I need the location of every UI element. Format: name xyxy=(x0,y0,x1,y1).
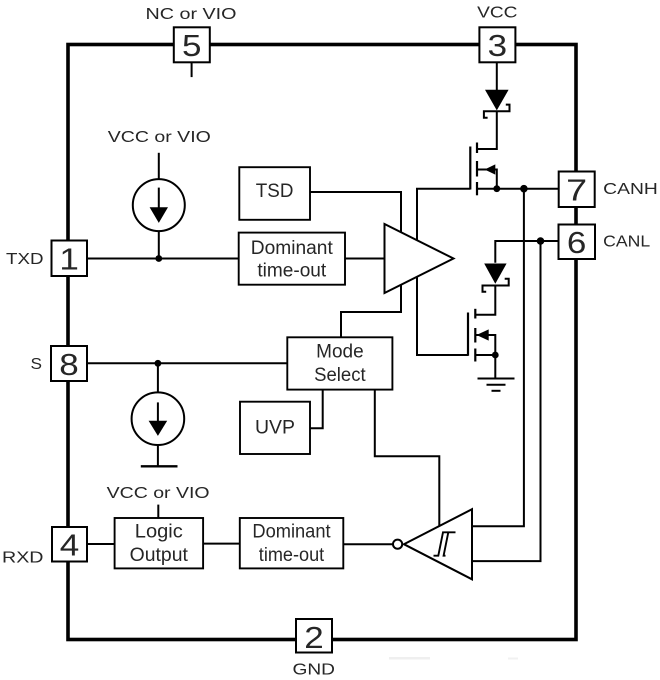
wire zener D2 to M2 drain xyxy=(475,286,495,315)
wire Logic Output to Dominant time-out 2 xyxy=(203,543,240,545)
wire M2 source to ground xyxy=(494,355,496,378)
svg-text:UVP: UVP xyxy=(255,417,295,438)
svg-text:1: 1 xyxy=(59,242,79,277)
receiver output bubble xyxy=(393,540,402,549)
wire current source I2 to ground bar xyxy=(157,445,159,466)
pin 5 xyxy=(174,27,210,63)
svg-text:Output: Output xyxy=(130,545,189,566)
svg-text:Mode: Mode xyxy=(316,342,364,363)
wire CANL pin6 to zener D2 xyxy=(495,241,558,263)
svg-text:NC or VIO: NC or VIO xyxy=(146,6,237,23)
svg-text:time-out: time-out xyxy=(259,545,325,566)
svg-text:5: 5 xyxy=(182,28,202,63)
wire Mode Select enable to receiver xyxy=(375,390,440,527)
svg-text:VCC or VIO: VCC or VIO xyxy=(107,485,210,502)
wire TSD to Mode Select (down behind driver) xyxy=(310,192,401,337)
zener diode D1 xyxy=(484,90,510,118)
current source I1 xyxy=(133,179,185,231)
svg-text:Dominant: Dominant xyxy=(252,521,331,542)
pin 2 xyxy=(296,619,332,655)
wire RXD pin4 to Logic Output xyxy=(87,543,115,545)
M1 body arrow xyxy=(485,164,496,174)
svg-text:VCC or VIO: VCC or VIO xyxy=(108,129,211,146)
svg-text:7: 7 xyxy=(566,173,587,208)
IC boundary box xyxy=(68,45,576,640)
pin 8 xyxy=(51,346,87,382)
zener diode D2 xyxy=(483,264,509,292)
wire TXD pin1 to Dominant time-out xyxy=(87,258,239,260)
wire Dominant time-out to driver input xyxy=(345,258,385,260)
svg-text:4: 4 xyxy=(60,528,80,563)
hysteresis symbol xyxy=(434,532,456,555)
svg-text:GND: GND xyxy=(293,661,336,678)
wire S node down to current source I2 xyxy=(157,363,159,392)
svg-text:time-out: time-out xyxy=(257,261,327,282)
svg-text:3: 3 xyxy=(488,28,508,63)
svg-text:VCC: VCC xyxy=(477,4,517,21)
block Dominant time-out 2 xyxy=(240,518,343,568)
wire current source I1 to TXD node xyxy=(158,231,160,258)
svg-text:Dominant: Dominant xyxy=(251,238,334,259)
svg-text:CANH: CANH xyxy=(603,181,658,198)
wire M2 body with arrow to source xyxy=(475,335,495,355)
wire zener D1 to M1 drain xyxy=(477,111,497,149)
pin 6 xyxy=(559,225,596,261)
node M2 source junction xyxy=(492,352,499,359)
wire driver gate line (behind driver) to M1 and M2 gates xyxy=(417,189,470,355)
pin 3 xyxy=(479,27,515,63)
node CANL receiver tap xyxy=(537,237,545,245)
svg-text:TSD: TSD xyxy=(256,181,294,202)
transistor M1 (upper MOSFET) xyxy=(470,143,477,196)
wire M1 source to CANH pin7 xyxy=(477,188,559,190)
svg-text:S: S xyxy=(31,356,43,373)
M2 channel dashes xyxy=(474,309,476,319)
wire CANL node down to receiver input xyxy=(472,241,541,561)
node TXD junction xyxy=(155,255,162,262)
pin 1 xyxy=(52,241,88,277)
schmitt trigger receiver xyxy=(393,509,472,579)
current source I2 xyxy=(132,392,185,445)
block Dominant time-out 1 xyxy=(239,233,345,285)
wire S pin8 to Mode Select xyxy=(87,362,287,364)
transistor M2 (lower MOSFET) xyxy=(468,309,475,362)
svg-text:RXD: RXD xyxy=(2,550,44,567)
svg-text:TXD: TXD xyxy=(6,251,44,268)
svg-text:2: 2 xyxy=(304,620,324,655)
node M1 source junction xyxy=(493,185,500,192)
wire M2 source xyxy=(475,354,495,356)
block Mode Select xyxy=(287,337,392,389)
M2 gate bar xyxy=(467,313,469,356)
wire UVP to Mode Select xyxy=(310,390,323,429)
node S junction xyxy=(155,360,162,367)
svg-text:Logic: Logic xyxy=(135,521,183,542)
wire VCC or VIO into current source I1 xyxy=(158,153,160,180)
pin 7 xyxy=(559,172,595,208)
block TSD xyxy=(239,167,310,220)
node CANH receiver tap xyxy=(520,185,528,193)
svg-text:CANL: CANL xyxy=(603,234,650,251)
op-amp driver triangle xyxy=(385,224,454,293)
svg-text:Select: Select xyxy=(314,365,366,386)
ground bar under current source I2 xyxy=(141,465,178,467)
svg-text:6: 6 xyxy=(567,225,587,260)
M1 gate bar xyxy=(469,147,471,190)
M2 body arrow xyxy=(477,329,489,340)
block UVP xyxy=(240,402,310,454)
ground symbol under M2 xyxy=(478,379,515,391)
wire pin5 stub xyxy=(191,62,193,77)
wire CANH node down to receiver input xyxy=(472,189,524,527)
pin 4 xyxy=(52,527,87,563)
block Logic Output xyxy=(115,518,204,568)
wire pin3 to zener D1 xyxy=(496,62,498,90)
faint print artifact xyxy=(389,657,430,660)
wire Dominant time-out 2 to receiver output circle xyxy=(343,543,393,545)
wire VCC or VIO stub into Logic Output xyxy=(157,505,159,518)
M1 channel dashes xyxy=(476,143,478,154)
svg-text:8: 8 xyxy=(59,347,79,382)
wire M1 body with arrow to source xyxy=(477,170,497,189)
